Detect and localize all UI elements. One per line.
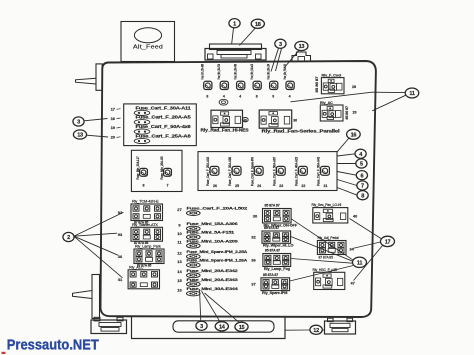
connector battery terminal top [205,44,266,60]
svg-text:36: 36 [118,254,123,259]
fuse F5 top row [266,64,277,99]
wire callout2 [74,236,123,278]
svg-text:37: 37 [251,282,256,287]
svg-text:32: 32 [251,235,256,240]
fuse cartridge 20 [111,133,192,143]
wire callout3left [84,119,108,121]
fuse F3 top row [233,64,244,99]
fuse F26 [206,157,219,188]
wire callout13top-fuses [284,50,299,68]
connector clamp bottom-left [91,317,127,333]
svg-text:Fuse_Cart_F_50A-4x6: Fuse_Cart_F_50A-4x6 [136,124,192,129]
fuse list item 13 Fuse_Mini_Spare-IPM_1.26A [177,259,247,268]
svg-text:Rly_F_Cool: Rly_F_Cool [322,74,342,78]
relay R40 Rly_Sec_Fan_LO-HI [312,203,358,223]
wire callout4right [337,154,355,156]
relay Rly_Lamp_Fog [251,249,290,271]
svg-text:Pressauto.NET: Pressauto.NET [7,337,99,353]
svg-text:8: 8 [206,95,208,99]
svg-text:Rly_A1C: Rly_A1C [129,265,144,269]
svg-text:Rly_HSC_F_p35: Rly_HSC_F_p35 [313,268,338,272]
svg-text:Fuse_Min_20A-G5: Fuse_Min_20A-G5 [160,156,164,179]
svg-text:Fuse_Min_20A-F80: Fuse_Min_20A-F80 [233,64,237,80]
callout 7 right [357,181,368,190]
svg-text:13: 13 [299,44,305,50]
svg-text:29: 29 [353,110,357,114]
svg-text:2: 2 [67,235,70,241]
wire callout6right [337,172,356,176]
svg-text:Fuse_Cart_F_30A-A11: Fuse_Cart_F_30A-A11 [136,105,192,110]
svg-text:7: 7 [167,184,169,188]
callout 12 [310,325,322,334]
svg-text:3: 3 [279,42,282,48]
svg-text:9: 9 [272,95,274,99]
callout 18 [251,19,264,28]
svg-text:10: 10 [177,231,182,236]
svg-text:12: 12 [313,328,319,334]
svg-text:Rly_Lamp_Park: Rly_Lamp_Park [135,244,161,248]
svg-text:Fuse_Cart_F_20A-A5: Fuse_Cart_F_20A-A5 [136,115,192,120]
svg-text:Fuse_Cart_F_30A-A80: Fuse_Cart_F_30A-A80 [228,157,232,186]
cartridge fuse box [124,104,197,146]
svg-text:17: 17 [111,107,116,112]
callout 17 [381,236,395,246]
relay Rly_Lamp_Park [118,244,164,267]
svg-text:27: 27 [177,207,182,212]
wire callout13left [87,135,109,137]
svg-text:Fuse_Cart_F_40A-A23: Fuse_Cart_F_40A-A23 [295,157,299,186]
relay Rly_Wiper_ON-OFF [253,204,298,228]
svg-text:5: 5 [360,162,363,168]
connector B+ Alt_Feed box [121,22,175,62]
svg-text:22: 22 [301,184,305,188]
wire callout11top-a [291,92,406,102]
svg-text:Fuse_Mini_30A-E344: Fuse_Mini_30A-E344 [187,287,240,291]
svg-text:85 86 87: 85 86 87 [315,76,319,92]
fuse cartridge 16 [111,115,192,125]
svg-text:13: 13 [77,133,83,139]
callout 15 bottom [235,322,248,331]
svg-text:8: 8 [361,193,364,199]
svg-text:12: 12 [177,250,182,255]
svg-text:36: 36 [293,118,297,122]
svg-text:15: 15 [177,278,182,283]
fuse F24 [250,156,263,187]
wire callout5right [337,163,356,165]
fuse F7 [164,168,172,187]
callout 3 left [73,117,84,126]
svg-text:Rly_Lamp_Fog: Rly_Lamp_Fog [264,267,291,271]
svg-text:3: 3 [200,324,203,330]
callout 11 bottom [353,257,367,267]
svg-text:Fuse_Mini_20A-E343: Fuse_Mini_20A-E343 [187,278,238,282]
fuse cartridge 19 [111,124,192,134]
svg-text:85 87A 87: 85 87A 87 [265,249,280,253]
fuse list item 12 Fuse_Mini_Spare-IPM_2.25A [177,250,247,259]
svg-text:Fuse_Min_20A-L94: Fuse_Min_20A-L94 [266,64,270,80]
svg-text:25: 25 [235,184,239,188]
wire callout11top-b [372,95,405,111]
callout 4 right [355,149,366,158]
svg-text:Fuse_Cart_F_25A-A8: Fuse_Cart_F_25A-A8 [136,133,192,138]
fuse F21 [317,157,330,188]
relay Rly_TCM-42N-E [118,199,163,224]
mini fuse box 8-7 [131,150,182,191]
fuse F22 [295,157,308,188]
wire callout8right [337,188,357,196]
svg-text:18: 18 [255,22,261,28]
relay R28 [315,74,356,94]
svg-text:Fuse_Min_15A-a15: Fuse_Min_15A-a15 [250,64,254,80]
svg-text:7: 7 [361,184,364,190]
svg-text:47: 47 [351,281,355,285]
svg-text:Fuse_Cart_F_20A-A10: Fuse_Cart_F_20A-A10 [206,157,210,186]
callout 3 top [275,39,286,48]
fuse cartridge 17 [111,105,192,115]
svg-text:Fuse_Min_20A-L17: Fuse_Min_20A-L17 [136,156,140,179]
wire fan-3 [200,289,201,321]
watermark Pressauto.NET [7,337,99,353]
wire callout2 [74,212,124,236]
svg-text:Fuse_Min_15A-H80: Fuse_Min_15A-H80 [201,64,205,80]
svg-text:14: 14 [177,269,182,274]
svg-text:Fuse_Mini_Spare-IPM_1.26A: Fuse_Mini_Spare-IPM_1.26A [187,259,248,263]
red mark corner [2,352,6,354]
bracket pin top-left [76,64,103,90]
wire callout11b-R37 [290,266,353,282]
callout 3 bottom [196,321,207,330]
svg-text:Fuse_Cart_F_20A-L502: Fuse_Cart_F_20A-L502 [187,207,248,211]
svg-text:87 87A 85: 87 87A 85 [319,256,334,260]
svg-text:Rly_Wiper_HI_LO: Rly_Wiper_HI_LO [263,244,293,248]
callout 14 bottom [215,322,228,331]
svg-text:4: 4 [239,95,241,99]
wire callout17-R47 [354,246,383,281]
svg-text:Fuse_Mini_Spare-IPM_2.25A: Fuse_Mini_Spare-IPM_2.25A [187,250,248,254]
svg-text:19: 19 [111,125,116,130]
relay R29 Rly_AC [320,101,357,121]
svg-text:16: 16 [177,287,182,292]
wire tray-callout12 [285,329,310,331]
relay R34 Rly_Adj_Pedal [317,236,354,259]
relay R49 Rly_Rad_Fan_HI [201,110,249,132]
svg-text:28: 28 [352,85,356,89]
fuse F4 top row [250,64,261,99]
svg-text:Fuse_Cart_F_30A-A41: Fuse_Cart_F_30A-A41 [317,157,321,186]
wire callout1-connector [232,28,234,45]
svg-text:Alt_Feed: Alt_Feed [133,45,163,51]
svg-text:23: 23 [279,184,283,188]
wire callout11b-R30 [291,219,353,260]
svg-text:49: 49 [243,118,247,122]
callout 6 right [356,171,367,180]
svg-text:85 86 87: 85 86 87 [345,106,349,120]
svg-text:85 87A 87: 85 87A 87 [264,226,279,230]
svg-text:24: 24 [257,184,261,188]
fuse list item 15 Fuse_Mini_20A-E343 [177,278,237,287]
svg-text:6: 6 [360,173,363,179]
fuse list item 11 Fuse_Mini_10A-A209 [177,239,237,248]
relay Rly_Starter-ATX [118,223,163,245]
svg-text:4: 4 [289,95,291,99]
fuse F1 top row [201,64,212,99]
relay Rly_Spare-IPM [251,273,289,295]
svg-text:Rly_Spare-IPM: Rly_Spare-IPM [262,291,287,295]
svg-text:Fuse_Mini_10A-A209: Fuse_Mini_10A-A209 [187,239,238,243]
svg-text:Rly_TCM-42N-E: Rly_TCM-42N-E [132,199,159,203]
callout 16 [347,129,361,139]
wire callout17-R34 [353,242,381,249]
svg-text:Rly_AC: Rly_AC [320,101,333,105]
svg-text:Fuse_Cart_F_50A-A67: Fuse_Cart_F_50A-A67 [272,157,276,186]
svg-text:13: 13 [177,259,182,264]
svg-text:17: 17 [385,240,391,246]
svg-text:Rly_Rad_Fan-Series_Parallel: Rly_Rad_Fan-Series_Parallel [262,129,340,134]
svg-text:15: 15 [239,325,245,331]
cartridge fuse box big [198,152,337,191]
fuse list item 14 Fuse_Mini_20A-E342 [177,269,237,278]
fuse list item 10 Fuse_Mini_5A-F151 [177,231,234,240]
wire fan-15 [205,293,240,322]
relay R47 Rly_HSC [313,268,355,290]
svg-text:4: 4 [223,95,225,99]
svg-text:20: 20 [111,135,116,140]
wire callout11b-R36 [291,259,353,264]
svg-text:16: 16 [351,132,357,138]
fuse F2 top row [217,64,228,99]
callout 8 right [357,191,368,200]
svg-text:Fuse_Min_F20A-L90: Fuse_Min_F20A-L90 [283,64,287,80]
callout 5 right [356,159,367,168]
wire callout3top-fuses [271,48,282,71]
wire callout17-R40 [350,219,382,239]
fuse F8 [140,168,148,187]
svg-text:3: 3 [77,120,80,126]
callout 11 top [405,88,419,98]
svg-text:Fuse_Mini_15A-A306: Fuse_Mini_15A-A306 [187,222,238,226]
bottom tray [132,317,286,339]
fuse list item 16 Fuse_Mini_30A-E344 [177,287,239,296]
wire callout18-connector [239,28,255,45]
wire callout2 [74,233,117,236]
svg-text:30: 30 [253,213,258,218]
svg-text:21: 21 [324,184,328,188]
wire fan-14 [202,291,221,322]
fuse F6 top row [283,64,294,99]
relay R36 Rly_Rad_Fan_Series [259,110,339,134]
svg-text:36: 36 [251,258,256,263]
svg-text:85 87A 87: 85 87A 87 [263,273,278,277]
svg-text:11: 11 [409,91,415,97]
relay Rly_A1C [118,265,160,289]
fuse box main outline [101,61,376,317]
fuse list item 27 Fuse_Cart_F_20A-L502 [177,207,247,216]
wire callout7right [337,180,357,186]
svg-text:Fuse_Mini_20A-E342: Fuse_Mini_20A-E342 [187,269,238,273]
svg-text:Rly_Sec_Fan_LO-HI: Rly_Sec_Fan_LO-HI [312,203,342,207]
connector clamp bottom-right [322,318,355,334]
svg-text:26: 26 [213,184,217,188]
svg-text:Rly_Starter-ATX: Rly_Starter-ATX [132,223,158,227]
svg-text:85 87A 87: 85 87A 87 [265,204,280,208]
svg-text:16: 16 [111,116,116,121]
svg-text:40: 40 [353,214,357,218]
svg-text:8: 8 [143,184,145,188]
bracket pin bottom-left [73,275,100,319]
callout 13 top [295,41,308,50]
relay Rly_Wiper_HI_LO [251,226,293,247]
svg-text:Fuse_Mini_5A-F151: Fuse_Mini_5A-F151 [187,231,235,235]
connector tab top-right [292,52,311,61]
callout 2 [63,232,74,241]
wire callout16 [337,138,349,152]
svg-text:Rly_Rad_Fan_HI-NES: Rly_Rad_Fan_HI-NES [201,128,249,133]
svg-text:93: 93 [118,232,123,237]
svg-text:1: 1 [233,21,236,27]
wire callout11b-R32 [291,237,353,262]
svg-text:8: 8 [256,95,258,99]
svg-text:11: 11 [357,260,363,266]
wire callout2 [74,236,118,255]
svg-text:Fuse_Min_25A-F34: Fuse_Min_25A-F34 [217,64,221,80]
svg-text:Fuse_Cart_F_Spare-IPA: Fuse_Cart_F_Spare-IPA [250,156,254,186]
fuse F25 [228,157,241,188]
mount hole symbol [219,99,228,105]
fuse list item 9 Fuse_Mini_15A-A306 [178,222,237,231]
callout 13 left [73,130,86,139]
callout 1 [229,19,240,28]
fuse F23 [272,157,285,188]
